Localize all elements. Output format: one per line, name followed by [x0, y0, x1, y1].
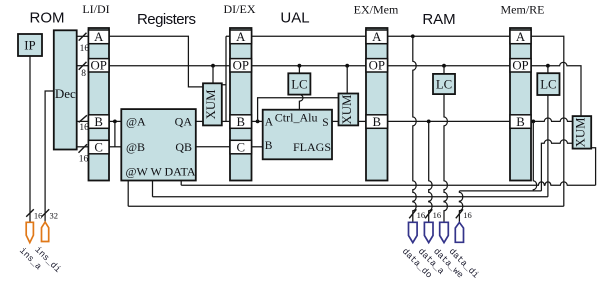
svg-text:IP: IP [24, 39, 35, 53]
junction MUX1 select [211, 64, 215, 68]
wire LC0 select [298, 66, 300, 74]
wire DI/EX C to ALU B [252, 146, 263, 148]
wire B row EX/Mem to Mem/RE [388, 120, 511, 122]
svg-text:C: C [94, 141, 103, 155]
svg-text:B: B [373, 115, 382, 129]
svg-text:Ctrl_Alu: Ctrl_Alu [275, 111, 318, 125]
wire mid rail to MUX3 input with hops [541, 140, 572, 191]
wire OP row Mem/RE to drop [531, 62, 581, 116]
connector pin data_do [400, 222, 434, 280]
wire Dec to LI/DI C [77, 146, 89, 148]
wire data_a vertical with hops [429, 121, 432, 222]
svg-text:16: 16 [80, 44, 90, 54]
svg-text:16: 16 [34, 210, 43, 220]
ALU Ctrl_Alu with FLAGS [263, 110, 332, 160]
svg-text:B: B [94, 115, 103, 129]
connector pin ins_a [17, 222, 44, 272]
junction B bypass [256, 120, 260, 124]
wire Registers DATA input [180, 181, 182, 186]
wire MUX1 right to DI/EX B [222, 120, 230, 122]
rail mid data_di [459, 190, 541, 192]
svg-text:Registers: Registers [137, 11, 196, 28]
wire Dec to LI/DI B [77, 120, 89, 122]
svg-text:8: 8 [81, 69, 86, 79]
logic control LC1 [433, 74, 455, 94]
rail @W address [128, 205, 564, 207]
rail DATA writeback with hops [181, 182, 595, 185]
wire MUX2 select [346, 66, 348, 94]
wire OP row EX/Mem to Mem/RE [388, 65, 511, 67]
wire QA to MUX1 [196, 120, 203, 122]
junction B drop [531, 120, 535, 124]
multiplexer MUX3 [573, 116, 592, 149]
junction LC1 select [442, 64, 446, 68]
wire LI/DI B to @A [109, 120, 122, 122]
bus slash 32 ins_di [42, 209, 58, 220]
svg-text:16: 16 [79, 123, 89, 133]
wire ins_di pin to Dec [45, 91, 54, 222]
wire OP row LI/DI to DI/EX [109, 65, 230, 67]
wire A row Mem/RE to MUX3 select [531, 36, 564, 206]
svg-text:B: B [237, 115, 246, 129]
svg-text:A: A [94, 30, 104, 44]
multiplexer MUX1 [203, 83, 222, 125]
junction data_a tap [427, 120, 431, 124]
svg-text:UAL: UAL [280, 10, 309, 27]
pipeline register DI/EX [230, 28, 252, 181]
svg-text:FLAGS: FLAGS [293, 140, 331, 154]
svg-text:A: A [372, 30, 382, 44]
bus slash 16 on A input [79, 33, 90, 54]
pipeline register Mem/RE [510, 28, 531, 181]
wire B bypass to MUX2 [258, 98, 339, 122]
wire LC2 select [547, 66, 549, 74]
pipeline register EX/Mem [366, 28, 388, 181]
register file Registers [121, 109, 196, 180]
svg-text:XUM: XUM [573, 117, 587, 147]
logic control LC0 [288, 73, 310, 94]
wire LC2 output down to W rail [547, 95, 549, 197]
svg-text:LC: LC [436, 78, 452, 92]
svg-text:ROM: ROM [30, 10, 65, 27]
svg-text:16: 16 [417, 210, 426, 220]
connector pin ins_di [33, 222, 63, 275]
wire Registers W input [152, 181, 154, 197]
connector pin data_a [416, 222, 446, 277]
connector pin data_we [431, 222, 465, 280]
junction LC0 select [298, 64, 302, 68]
decoder Dec [54, 30, 77, 149]
svg-text:OP: OP [91, 59, 107, 73]
wire B field down to @B [114, 121, 116, 146]
connector pin data_di [447, 222, 481, 280]
svg-text:A: A [236, 30, 246, 44]
pipeline register LI/DI [89, 28, 110, 181]
register IP [18, 34, 42, 56]
svg-text:OP: OP [369, 59, 385, 73]
svg-text:16: 16 [433, 210, 442, 220]
wire IP to ins_a pin [29, 56, 31, 222]
multiplexer MUX2 [339, 94, 359, 126]
svg-text:OP: OP [233, 59, 249, 73]
wire QB to DI/EX C [196, 146, 230, 148]
wire data_di vertical with hops [459, 191, 462, 222]
svg-text:A: A [265, 116, 274, 128]
wire LC1 select [443, 66, 445, 74]
rail W write-enable [153, 196, 548, 198]
svg-text:DI/EX: DI/EX [224, 2, 256, 16]
svg-text:LC: LC [291, 77, 307, 91]
wire Dec to LI/DI A [77, 35, 89, 37]
wire MUX1 select [212, 66, 214, 84]
svg-text:@A: @A [126, 115, 146, 129]
svg-text:C: C [237, 141, 246, 155]
svg-text:Dec: Dec [55, 86, 76, 101]
wire Registers @W input [127, 181, 129, 207]
bus slash 16 data_do [409, 209, 425, 220]
wire A row EX/Mem to Mem/RE [388, 35, 511, 37]
svg-text:RAM: RAM [422, 11, 455, 28]
bus slash 16 data_di [456, 209, 472, 220]
svg-text:@B: @B [126, 140, 145, 154]
logic control LC2 [537, 73, 559, 95]
bus slash 16 on B input [79, 115, 89, 133]
bus slash 16 on C input [79, 144, 89, 164]
svg-text:DATA: DATA [165, 164, 196, 178]
wire LC0 to ALU with hop [299, 95, 303, 110]
wire MUX1 output to DI/EX A [222, 36, 230, 121]
svg-text:A: A [516, 30, 526, 44]
bus slash 16 data_a [425, 209, 441, 220]
wire Dec to LI/DI OP [77, 65, 89, 67]
svg-text:16: 16 [79, 154, 89, 164]
wire ALU S to MUX2 [332, 120, 339, 122]
svg-text:@W: @W [126, 164, 149, 178]
svg-text:Mem/RE: Mem/RE [501, 3, 545, 17]
wire data_do vertical with hops [413, 36, 416, 222]
svg-text:32: 32 [50, 210, 59, 220]
junction MUX2 select [345, 64, 349, 68]
svg-text:XUM: XUM [340, 95, 354, 125]
svg-text:B: B [516, 115, 525, 129]
svg-text:LC: LC [540, 78, 556, 92]
junction LC2 select [546, 64, 550, 68]
wire B row Mem/RE to MUX3 with hops [531, 118, 573, 121]
bus slash 8 on OP input [79, 62, 87, 79]
svg-text:16: 16 [463, 210, 472, 220]
svg-text:W: W [151, 164, 163, 178]
svg-text:OP: OP [512, 59, 528, 73]
svg-text:XUM: XUM [204, 89, 218, 119]
wire A row DI/EX to EX/Mem [252, 35, 367, 37]
wire B drop to mid rail with hop [533, 121, 536, 190]
wire OP row DI/EX to EX/Mem [252, 65, 367, 67]
wire LI/DI C to @B [109, 146, 122, 148]
svg-text:EX/Mem: EX/Mem [354, 3, 399, 17]
svg-text:QB: QB [175, 140, 192, 154]
wire LC1 to data_we with hops [444, 94, 447, 222]
wire LI/DI A to bend [109, 36, 203, 87]
wire MUX2 output to EX/Mem B [358, 120, 366, 122]
junction B field [113, 120, 117, 124]
svg-text:S: S [322, 117, 328, 129]
bus slash 16 ins_a [26, 209, 42, 220]
svg-text:B: B [265, 140, 273, 152]
wire DI/EX B to ALU A [252, 120, 263, 122]
svg-text:LI/DI: LI/DI [82, 2, 109, 16]
svg-text:QA: QA [175, 115, 193, 129]
wire MUX3 output to DATA rail [591, 148, 595, 185]
junction data_do tap [411, 34, 415, 38]
